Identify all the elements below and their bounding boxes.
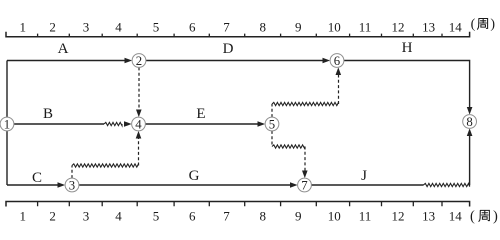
svg-text:8: 8 bbox=[466, 115, 472, 129]
svg-text:D: D bbox=[223, 41, 234, 57]
svg-text:(: ( bbox=[471, 17, 476, 32]
svg-text:A: A bbox=[58, 41, 69, 57]
svg-text:6: 6 bbox=[189, 20, 196, 35]
svg-text:1: 1 bbox=[4, 117, 10, 131]
svg-text:12: 12 bbox=[392, 209, 405, 224]
svg-text:5: 5 bbox=[153, 20, 160, 35]
svg-text:9: 9 bbox=[295, 20, 302, 35]
top ruler line bbox=[6, 32, 470, 37]
svg-text:8: 8 bbox=[260, 209, 267, 224]
svg-text:9: 9 bbox=[295, 209, 302, 224]
svg-text:14: 14 bbox=[449, 20, 463, 35]
dummy link node 5 to node 7 (dashed down, wave right, dashed arrow down) bbox=[271, 131, 273, 147]
svg-text:): ) bbox=[493, 208, 498, 224]
svg-text:3: 3 bbox=[83, 209, 90, 224]
svg-text:B: B bbox=[43, 106, 53, 122]
activity H arrow (node 6 right then down to node 8) bbox=[344, 61, 470, 108]
wire: left vertical from A-row through node 1 to C-row bbox=[6, 61, 8, 186]
svg-text:14: 14 bbox=[449, 209, 463, 224]
svg-text:2: 2 bbox=[49, 209, 56, 224]
top ruler week numbers bbox=[19, 20, 462, 35]
node 8 bbox=[463, 115, 477, 129]
svg-text:10: 10 bbox=[328, 209, 341, 224]
node 1 bbox=[0, 117, 14, 131]
node 5 bbox=[265, 117, 279, 131]
svg-text:7: 7 bbox=[301, 178, 308, 192]
activity A arrow (node 1 to node 2) bbox=[7, 60, 125, 62]
node 7 bbox=[298, 178, 312, 192]
svg-text:5: 5 bbox=[153, 209, 160, 224]
node 3 bbox=[65, 178, 79, 192]
svg-text:12: 12 bbox=[392, 20, 405, 35]
svg-text:6: 6 bbox=[189, 209, 196, 224]
svg-text:7: 7 bbox=[223, 209, 230, 224]
svg-text:7: 7 bbox=[223, 20, 230, 35]
node 2 bbox=[132, 54, 146, 68]
svg-text:(: ( bbox=[470, 208, 475, 224]
svg-text:1: 1 bbox=[19, 209, 26, 224]
svg-text:10: 10 bbox=[328, 20, 341, 35]
node 6 bbox=[330, 54, 344, 68]
svg-text:2: 2 bbox=[136, 54, 142, 68]
activity E arrow (node 4 to node 5) bbox=[145, 123, 258, 125]
svg-text:C: C bbox=[32, 170, 42, 186]
dummy link node 5 to node 6 (dashed up, wave right, dashed arrow up) bbox=[271, 104, 273, 117]
svg-text:H: H bbox=[402, 40, 413, 56]
svg-text:): ) bbox=[490, 17, 495, 32]
top axis unit label (zhou/week) bbox=[471, 17, 496, 32]
svg-text:4: 4 bbox=[115, 209, 122, 224]
svg-text:13: 13 bbox=[422, 20, 435, 35]
bottom ruler line bbox=[6, 202, 470, 207]
svg-text:2: 2 bbox=[49, 20, 56, 35]
svg-text:E: E bbox=[196, 106, 205, 122]
svg-text:3: 3 bbox=[83, 20, 90, 35]
bottom axis unit label (zhou/week) bbox=[470, 208, 498, 224]
activity C arrow (node 1 to node 3) bbox=[7, 184, 58, 186]
top ruler ticks bbox=[38, 34, 442, 37]
node 4 bbox=[132, 117, 146, 131]
svg-text:G: G bbox=[189, 168, 200, 184]
dummy link node 2 to node 4 (vertical dashed arrow) bbox=[138, 67, 140, 110]
activity J arrow with free-float wave (node 7 right then up to node 8) bbox=[311, 184, 423, 186]
activity G arrow (node 3 to node 7) bbox=[79, 184, 291, 186]
svg-text:3: 3 bbox=[69, 178, 75, 192]
svg-text:11: 11 bbox=[359, 209, 372, 224]
svg-text:1: 1 bbox=[19, 20, 26, 35]
svg-text:J: J bbox=[361, 168, 367, 184]
bottom ruler week numbers bbox=[19, 209, 462, 224]
svg-text:4: 4 bbox=[115, 20, 122, 35]
svg-text:13: 13 bbox=[422, 209, 435, 224]
svg-text:4: 4 bbox=[135, 117, 142, 131]
svg-text:5: 5 bbox=[269, 117, 275, 131]
bottom ruler ticks bbox=[38, 202, 442, 207]
svg-text:11: 11 bbox=[359, 20, 372, 35]
svg-text:6: 6 bbox=[334, 54, 341, 68]
activity B arrow with free-float wave (node 1 to node 4) bbox=[14, 123, 104, 125]
svg-text:8: 8 bbox=[260, 20, 267, 35]
dummy link node 3 to node 4 (dashed up, wave right, dashed arrow up) bbox=[71, 166, 73, 179]
activity D arrow (node 2 to node 6) bbox=[146, 60, 323, 62]
